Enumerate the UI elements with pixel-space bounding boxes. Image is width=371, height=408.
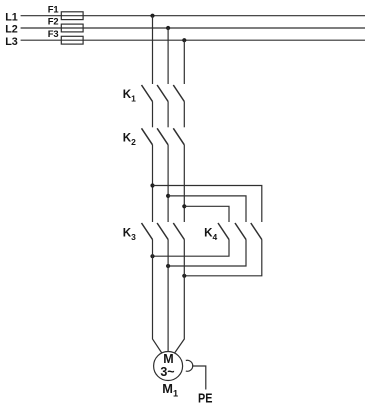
wire phase2 K3 to motor [167,240,169,352]
wire phase1 K1 to K2 [152,102,154,128]
wire phase3 K1 to K2 [183,102,185,128]
svg-text:L1: L1 [5,11,18,23]
junction on L2 bus [166,26,170,30]
wire L3 bus [21,39,365,41]
svg-text:F1: F1 [48,4,59,15]
motor M1 [154,352,183,399]
wire L2 bus [21,27,365,29]
junction phase2 K4 return [166,264,170,268]
junction phase2 tap to K4 [166,194,170,198]
wire phase3 to K4 pole 1 [184,206,229,222]
contactor K2 pole 2 blade [157,128,168,145]
svg-text:F3: F3 [48,28,59,39]
wire phase1 to K4 pole 3 [153,186,262,223]
wire phase2 to K4 pole 2 [168,196,246,222]
wire phase3 K3 to motor [175,240,185,354]
contactor K3 pole 1 blade [142,223,153,240]
svg-text:PE: PE [198,390,213,405]
svg-text:L2: L2 [5,24,18,36]
junction phase3 K4 return [182,274,186,278]
wire phase2 K2 to K3 [167,145,169,222]
wire K4 pole 1 return to phase1 [153,240,230,257]
PE clamp arc [186,360,193,371]
svg-text:K3: K3 [123,226,136,242]
wire phase2 K1 to K2 [167,102,169,128]
wire phase3 K2 to K3 [183,145,185,222]
contactor K3 pole 3 blade [173,223,184,240]
wire phase1 drop to K1 [152,16,154,84]
wire phase1 K2 to K3 [152,145,154,222]
contactor K1 pole 1 blade [142,85,153,102]
fuse F2 [48,16,83,32]
svg-text:K4: K4 [204,226,217,242]
junction on L3 bus [182,38,186,42]
fuse F3 [48,28,83,44]
wire phase2 drop to K1 [167,28,169,84]
contactor K2 pole 3 blade [173,128,184,145]
junction on L1 bus [150,14,154,18]
contactor K3 pole 2 blade [157,223,168,240]
contactor K1 pole 2 blade [157,85,168,102]
contactor K4 pole 1 blade [218,223,229,240]
svg-text:3~: 3~ [160,365,174,379]
wire K4 pole 2 return to phase2 [168,240,246,267]
wire phase3 drop to K1 [183,40,185,84]
svg-text:F2: F2 [48,16,59,27]
junction phase3 tap to K4 [182,204,186,208]
wire L1 bus [21,15,365,17]
contactor K4 pole 2 blade [235,223,246,240]
svg-text:L3: L3 [5,36,18,48]
contactor K2 pole 1 blade [142,128,153,145]
fuse F1 [48,4,83,20]
svg-text:K1: K1 [123,88,136,104]
wire PE [192,366,206,390]
wire K4 pole 3 return to phase3 [184,240,261,276]
contactor K1 pole 3 blade [173,85,184,102]
contactor K4 pole 3 blade [251,223,262,240]
svg-text:M1: M1 [162,381,178,399]
svg-text:K2: K2 [123,131,136,147]
wire phase1 K3 to motor [153,240,162,354]
junction phase1 tap to K4 [150,183,154,187]
junction phase1 K4 return [150,254,154,258]
